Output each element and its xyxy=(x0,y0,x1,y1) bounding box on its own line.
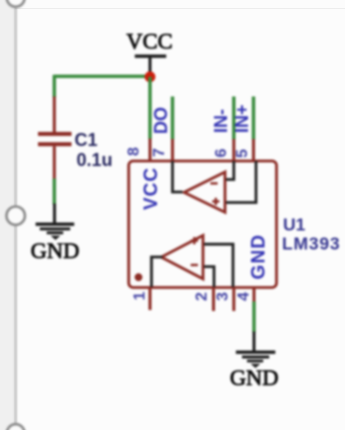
svg-text:1: 1 xyxy=(131,291,148,300)
wire IN+ (pin5) xyxy=(252,97,255,140)
minus mark (bottom comparator) xyxy=(191,264,198,266)
minus mark (top comparator) xyxy=(210,182,217,184)
svg-text:5: 5 xyxy=(234,149,251,158)
VCC power symbol xyxy=(135,56,166,73)
svg-text:4: 4 xyxy=(236,292,253,301)
wire corner down to C1 xyxy=(53,75,56,98)
op-amp U1 body xyxy=(129,161,277,288)
svg-text:GND: GND xyxy=(249,234,270,280)
pin 1 stub xyxy=(149,288,152,311)
pin 5 stub xyxy=(252,139,255,161)
plus mark (top comparator) xyxy=(212,198,219,205)
wire IN- (pin6) xyxy=(232,97,235,140)
comparator B triangle (bottom) xyxy=(161,235,203,279)
ground (left) xyxy=(36,204,75,241)
wire pin6 to minus A xyxy=(226,161,234,180)
wire pin7 to output A xyxy=(173,161,183,192)
wire C1 to GND xyxy=(53,179,56,205)
svg-text:VCC: VCC xyxy=(141,167,162,210)
wire pin4 to GND xyxy=(252,302,255,333)
pin 6 stub xyxy=(232,139,235,161)
svg-text:VCC: VCC xyxy=(126,29,172,54)
svg-text:GND: GND xyxy=(31,238,80,263)
svg-text:3: 3 xyxy=(215,292,232,301)
wire DO (pin7) xyxy=(171,97,174,140)
pin 3 stub xyxy=(232,288,235,312)
ground (right) xyxy=(236,332,275,369)
wire pin5 to plus A xyxy=(226,161,256,203)
handle circle bottom xyxy=(7,424,25,430)
svg-text:0.1u: 0.1u xyxy=(77,150,113,170)
svg-text:2: 2 xyxy=(194,292,211,301)
handle circle middle xyxy=(7,207,25,225)
wire junction to pin8 xyxy=(148,77,151,139)
pin 8 stub xyxy=(149,139,152,162)
wire VCC horizontal xyxy=(54,75,150,78)
svg-text:IN-: IN- xyxy=(211,109,231,133)
svg-text:IN+: IN+ xyxy=(232,104,252,133)
svg-text:6: 6 xyxy=(213,148,230,157)
plus mark (bottom comparator) xyxy=(191,237,198,244)
pin 4 stub xyxy=(253,288,256,303)
wire output B to pin1 xyxy=(152,257,163,287)
handle circle top xyxy=(7,0,25,7)
junction dot xyxy=(145,71,156,82)
wire minus B to pin2 xyxy=(204,267,214,287)
svg-text:DO: DO xyxy=(151,107,171,134)
handle line xyxy=(15,0,17,430)
svg-text:GND: GND xyxy=(230,365,279,390)
wire plus B to pin3 xyxy=(204,244,233,287)
capacitor C1 xyxy=(38,97,72,180)
comparator A triangle (top) xyxy=(184,172,225,212)
pin 2 stub xyxy=(212,288,215,312)
svg-text:8: 8 xyxy=(126,147,143,156)
svg-text:7: 7 xyxy=(151,148,168,157)
pin1 marker dot xyxy=(135,273,143,281)
svg-text:C1: C1 xyxy=(75,130,98,150)
svg-text:U1: U1 xyxy=(283,215,306,235)
pin 7 stub xyxy=(171,139,174,161)
svg-text:LM393: LM393 xyxy=(282,234,340,254)
